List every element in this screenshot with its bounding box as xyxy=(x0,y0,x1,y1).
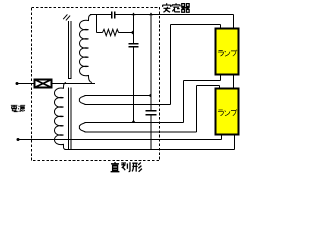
fuse F1 xyxy=(35,80,52,88)
node C junction dot xyxy=(149,13,153,16)
series link LA1 bottom-right to LA2 top-right xyxy=(233,75,235,89)
wire to lamp LA1 bottom-left pin xyxy=(183,81,185,123)
label 安定器 xyxy=(162,3,189,12)
transformer core xyxy=(68,21,70,79)
wire to lamp LA2 top-left pin xyxy=(196,86,198,133)
top wire (lamp feed) xyxy=(90,14,112,16)
node B junction dot xyxy=(132,13,136,16)
return wire LA2 bottom-left to T2 xyxy=(221,135,223,140)
capacitor C1 (series, top wire) xyxy=(112,12,115,19)
node C vertical wire xyxy=(150,15,152,105)
wire C3 to lamp return xyxy=(133,47,135,123)
label lamp LA2 (ランプ) xyxy=(218,109,237,115)
heater winding A xyxy=(79,96,85,105)
label lamp LA1 (ランプ) xyxy=(218,50,237,56)
label 電源 xyxy=(11,105,25,111)
source terminal T2 xyxy=(17,138,20,141)
wire T1 to fuse xyxy=(17,83,35,85)
wire LA2 bottom-right to coil bottom xyxy=(234,135,236,150)
source terminal T1 xyxy=(16,82,19,85)
capacitor C2 xyxy=(150,105,152,111)
heater winding B xyxy=(79,123,85,133)
ballast enclosure box (dashed) xyxy=(32,8,160,161)
lamp LA1 xyxy=(216,29,239,75)
resistor R1 xyxy=(103,29,119,35)
node A drop wire xyxy=(96,15,98,33)
node B vertical wire xyxy=(133,15,135,44)
secondary coil (top winding) xyxy=(80,15,93,83)
junction: heater A top leg to node C wire xyxy=(149,93,152,98)
wire fuse to transformer tap xyxy=(52,83,96,85)
label 直列形 xyxy=(111,162,142,172)
primary coil (bottom winding) xyxy=(55,83,67,150)
core gap marks xyxy=(63,14,70,20)
capacitor C3 xyxy=(129,44,139,47)
junction: resistor to node B wire xyxy=(131,30,134,35)
lamp LA2 xyxy=(216,89,239,135)
wire to lamp LA1 top-left pin xyxy=(170,25,172,105)
